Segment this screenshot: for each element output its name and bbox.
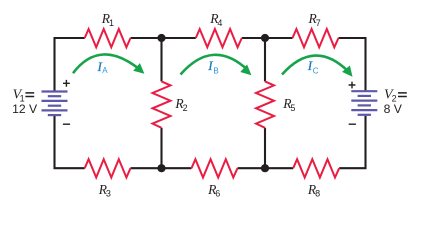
wire: V1 bottom to bottom-left corner	[55, 115, 85, 168]
battery V2	[351, 90, 377, 92]
V2 plus sign	[349, 82, 356, 89]
svg-text:1: 1	[109, 18, 114, 28]
V1 plus sign	[63, 80, 70, 87]
wire: top between R1 and R4	[131, 37, 196, 39]
node dot: bottom node under R5	[261, 164, 269, 172]
V1 minus sign	[63, 123, 70, 125]
svg-text:7: 7	[316, 18, 321, 28]
resistor R4	[196, 29, 242, 47]
resistor R8	[293, 159, 339, 177]
svg-text:I: I	[207, 58, 213, 73]
svg-text:B: B	[213, 67, 218, 76]
svg-text:C: C	[313, 67, 319, 76]
V2 equals sign	[398, 93, 407, 97]
resistor R5	[256, 81, 274, 127]
svg-text:8: 8	[315, 189, 320, 199]
svg-text:6: 6	[215, 189, 220, 199]
svg-text:12 V: 12 V	[12, 102, 38, 116]
node dot: bottom node under R2	[157, 164, 165, 172]
current arrow I_C head	[342, 66, 353, 77]
resistor R2	[153, 81, 171, 127]
wire: bottom between R6 and R8	[238, 167, 294, 169]
V1 equals sign	[25, 93, 34, 97]
wire: top right after R7 to V2 top	[339, 38, 366, 91]
resistor R1	[85, 29, 131, 47]
current arrow I_A head	[133, 63, 144, 74]
svg-text:4: 4	[217, 18, 222, 28]
current arrow I_B head	[240, 65, 251, 76]
svg-text:8 V: 8 V	[384, 102, 403, 116]
wire: R5 branch top stub	[264, 38, 266, 81]
svg-text:I: I	[307, 58, 313, 73]
node dot: top node A (R1/R4/R2 junction)	[157, 34, 165, 42]
wire: R2 branch top stub	[160, 38, 162, 81]
battery V1	[42, 90, 68, 92]
resistor R6	[192, 159, 238, 177]
resistor R7	[293, 29, 339, 47]
wire: R2 branch bottom stub	[160, 128, 162, 168]
wire: top-left corner to V1 top	[55, 38, 85, 92]
svg-text:A: A	[102, 66, 108, 75]
svg-text:2: 2	[183, 103, 188, 113]
current arrow I_A arc	[73, 54, 141, 73]
wire: top between R4 and R7	[242, 37, 293, 39]
V2 minus sign	[349, 123, 356, 125]
svg-text:3: 3	[106, 189, 111, 199]
wire: bottom between R3 and R6	[131, 167, 192, 169]
resistor R3	[85, 159, 131, 177]
current arrow I_B arc	[181, 55, 248, 75]
wire: V2 bottom to bottom-right corner	[339, 116, 365, 168]
svg-text:5: 5	[290, 103, 295, 113]
current arrow I_C arc	[282, 56, 348, 75]
node dot: top node B (R4/R7/R5 junction)	[261, 34, 269, 42]
wire: R5 branch bottom stub	[264, 128, 266, 168]
